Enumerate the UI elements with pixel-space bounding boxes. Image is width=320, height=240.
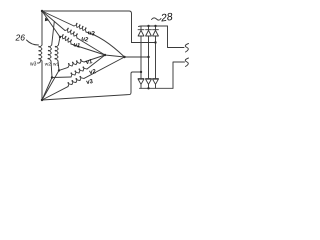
svg-text:w1: w1: [53, 62, 59, 68]
svg-text:u2: u2: [81, 36, 90, 44]
svg-text:u3: u3: [87, 30, 96, 38]
svg-text:28: 28: [159, 11, 173, 25]
svg-text:v2: v2: [89, 69, 97, 76]
svg-text:w3: w3: [30, 62, 37, 68]
svg-text:u1: u1: [73, 42, 82, 50]
svg-text:v1: v1: [85, 59, 93, 66]
svg-text:v3: v3: [86, 79, 94, 86]
svg-text:w2: w2: [45, 62, 51, 68]
svg-text:26: 26: [15, 33, 26, 43]
